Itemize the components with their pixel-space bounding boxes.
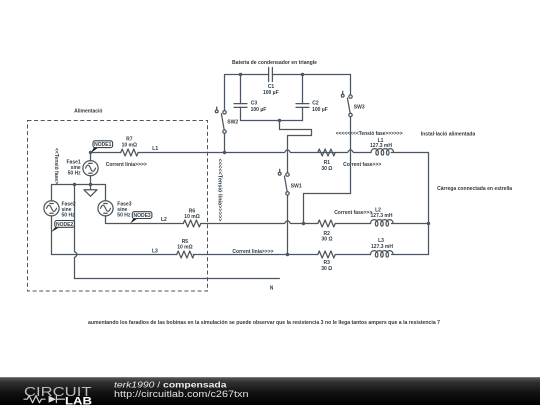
wire N line [75, 278, 280, 280]
wire cap bottom rail [241, 120, 303, 122]
capacitor C1 [269, 68, 273, 82]
svg-text:NODE3: NODE3 [133, 213, 150, 219]
footer bar [0, 377, 540, 405]
svg-text:10 mΩ: 10 mΩ [184, 214, 199, 220]
svg-text:Alimentació: Alimentació [74, 108, 102, 114]
svg-text:L1: L1 [152, 146, 158, 152]
svg-text:Corrent fase>>>: Corrent fase>>> [334, 210, 372, 216]
svg-text:L3: L3 [152, 249, 158, 255]
junction dots [89, 151, 92, 154]
svg-text:http://circuitlab.com/c267txn: http://circuitlab.com/c267txn [114, 389, 249, 399]
svg-text:30 Ω: 30 Ω [321, 166, 332, 172]
inductor L1 [371, 149, 394, 156]
capacitor C2 [296, 104, 309, 108]
capacitor C3 [234, 104, 247, 108]
svg-text:100 µF: 100 µF [251, 107, 267, 113]
inductor L3 [371, 251, 394, 258]
svg-text:100 µF: 100 µF [263, 90, 279, 96]
inductor L2 [371, 220, 394, 227]
svg-text:<<<<<<<<Tensió fase>>>>>>: <<<<<<<<Tensió fase>>>>>> [336, 131, 403, 137]
node NODE2 [51, 227, 59, 232]
wire cap left branch [240, 75, 242, 121]
svg-text:SW3: SW3 [354, 104, 365, 110]
svg-text:Corrent linia>>>>: Corrent linia>>>> [232, 249, 273, 255]
svg-text:C2: C2 [312, 101, 319, 107]
svg-text:50 Hz: 50 Hz [68, 171, 82, 177]
svg-text:L2: L2 [161, 217, 167, 223]
ground [84, 185, 97, 197]
svg-text:C3: C3 [251, 101, 258, 107]
wire neutral vertical with hop over L3 [75, 185, 78, 279]
svg-text:50 Hz: 50 Hz [117, 213, 131, 219]
wire SW3 down across L1 then to L2 [304, 117, 351, 224]
wire capacitor top rail [225, 75, 351, 111]
wire SW2 to L1 [224, 133, 226, 152]
svg-text:N: N [270, 285, 274, 291]
svg-text:NODE2: NODE2 [56, 222, 73, 228]
svg-text:10 mΩ: 10 mΩ [122, 143, 137, 149]
wire delta corner3 jog down to SW1 [280, 121, 312, 173]
wire SW1 down to L3 [287, 195, 289, 254]
svg-text:<<<<<Tensió línia>>>>>: <<<<<Tensió línia>>>>> [217, 159, 223, 222]
wire star point vertical [428, 153, 430, 255]
resistor R1 [318, 149, 335, 156]
svg-text:10 mΩ: 10 mΩ [177, 245, 192, 251]
dashed box Alimentació [28, 121, 208, 292]
wire L2 line with hop [106, 216, 429, 224]
switch SW2 [215, 107, 226, 133]
svg-text:127.3 mH: 127.3 mH [371, 244, 393, 250]
svg-text:SW1: SW1 [291, 184, 302, 190]
svg-text:NODE1: NODE1 [94, 142, 111, 148]
svg-text:C1: C1 [268, 84, 275, 90]
svg-text:Instal·lació alimentada: Instal·lació alimentada [421, 131, 476, 137]
switch SW1 [278, 169, 289, 195]
source Fase3 [98, 201, 113, 216]
svg-text:<<Tensió fase>: <<Tensió fase> [53, 148, 59, 184]
svg-text:aumentando los faradios de las: aumentando los faradios de las bobinas e… [88, 320, 440, 326]
source Fase1 [83, 161, 98, 176]
switch SW3 [341, 91, 352, 116]
svg-text:30 Ω: 30 Ω [321, 266, 332, 272]
node NODE1 [91, 148, 99, 154]
svg-text:Corrent linia>>>>: Corrent linia>>>> [106, 162, 147, 168]
wire L1 line with hops [91, 150, 429, 153]
resistor R7 [121, 149, 138, 156]
svg-text:127.3 mH: 127.3 mH [370, 143, 392, 149]
svg-text:127.3 mH: 127.3 mH [371, 213, 393, 219]
svg-text:SW2: SW2 [227, 119, 238, 125]
svg-text:LAB: LAB [65, 395, 92, 405]
wire sources rail [52, 153, 106, 201]
svg-text:Càrrega connectada en estrella: Càrrega connectada en estrella [437, 186, 512, 192]
wire cap right branch [302, 75, 304, 121]
resistor R3 [318, 251, 335, 258]
svg-text:Corrent fase>>>: Corrent fase>>> [343, 162, 381, 168]
logo resistor and diode [24, 396, 65, 403]
svg-text:30 Ω: 30 Ω [322, 236, 333, 242]
wire L3 line [52, 216, 429, 255]
svg-text:Bateria de condensador en tria: Bateria de condensador en triangle [232, 60, 317, 66]
resistor R5 [177, 251, 194, 258]
resistor R6 [183, 220, 200, 227]
node NODE3 [130, 219, 137, 224]
svg-text:100 µF: 100 µF [312, 107, 328, 113]
svg-text:50 Hz: 50 Hz [62, 213, 76, 219]
resistor R2 [318, 220, 335, 227]
source Fase2 [44, 201, 59, 216]
